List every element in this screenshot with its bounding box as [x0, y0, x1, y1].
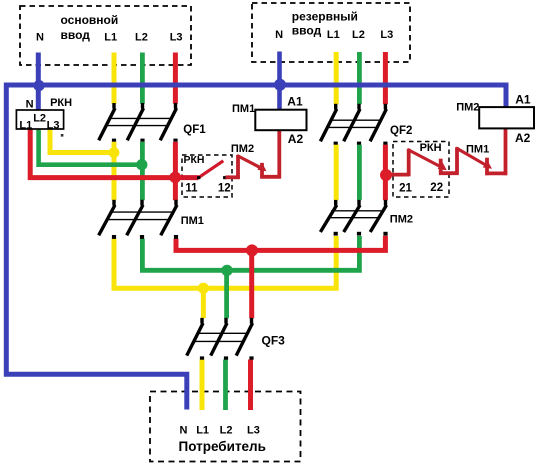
svg-text:ПМ2: ПМ2: [456, 101, 479, 113]
svg-text:N: N: [36, 31, 44, 43]
svg-text:QF3: QF3: [262, 334, 286, 348]
svg-text:основной: основной: [61, 13, 119, 27]
svg-text:ПМ1: ПМ1: [232, 103, 255, 115]
svg-text:ввод: ввод: [292, 24, 322, 38]
svg-text:A2: A2: [515, 131, 531, 145]
svg-text:11: 11: [185, 182, 198, 194]
svg-text:L3: L3: [47, 120, 60, 132]
svg-text:L2: L2: [135, 31, 148, 43]
svg-text:РКН: РКН: [50, 97, 72, 109]
svg-text:QF2: QF2: [390, 125, 412, 137]
svg-text:N: N: [275, 29, 283, 41]
svg-text:РКН: РКН: [184, 154, 205, 166]
svg-text:L2: L2: [352, 29, 365, 41]
svg-text:ввод: ввод: [61, 28, 91, 42]
svg-text:РКН: РКН: [420, 142, 442, 154]
svg-text:22: 22: [430, 182, 443, 194]
svg-text:L1: L1: [196, 424, 209, 436]
svg-text:L2: L2: [220, 424, 233, 436]
svg-text:Потребитель: Потребитель: [179, 439, 266, 454]
svg-text:ПМ1: ПМ1: [181, 215, 204, 227]
svg-text:QF1: QF1: [183, 124, 206, 136]
svg-text:L2: L2: [33, 113, 46, 125]
svg-text:L3: L3: [247, 424, 260, 436]
svg-text:ПМ2: ПМ2: [231, 143, 254, 155]
svg-text:L3: L3: [170, 31, 183, 43]
svg-text:12: 12: [218, 182, 231, 194]
svg-text:L1: L1: [327, 29, 340, 41]
svg-text:L3: L3: [380, 29, 393, 41]
svg-text:A2: A2: [288, 132, 304, 146]
svg-text:A1: A1: [515, 93, 531, 107]
svg-text:ПМ2: ПМ2: [390, 213, 413, 225]
svg-text:N: N: [26, 99, 34, 111]
svg-text:A1: A1: [287, 94, 303, 108]
svg-text:N: N: [180, 424, 188, 436]
svg-text:21: 21: [399, 182, 412, 194]
svg-text:L1: L1: [104, 31, 117, 43]
svg-text:L1: L1: [19, 120, 32, 132]
svg-text:ПМ1: ПМ1: [466, 143, 489, 155]
svg-text:резервный: резервный: [292, 9, 358, 23]
